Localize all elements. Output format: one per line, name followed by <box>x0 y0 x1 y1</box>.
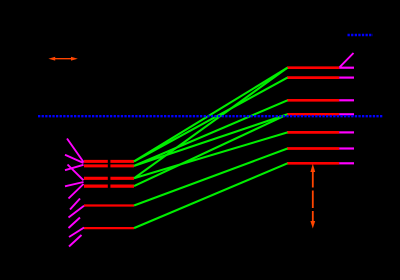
magenta pointer M4 (fan to L2 from above) <box>68 165 84 181</box>
right level R1 (red) <box>287 66 339 69</box>
green connector G2: L1a to R2 <box>134 78 288 162</box>
green connector G4: L1b to R4 <box>134 114 288 166</box>
magenta pointer M3 (fan to L1 from below) <box>65 165 84 170</box>
left level L2b (red dashed pair bottom) <box>84 185 134 188</box>
blue dotted ionization limit line <box>38 115 384 117</box>
right level R5 (red) <box>287 131 339 134</box>
magenta pointer M9 (ladder stroke) <box>69 218 81 229</box>
right level R2 (red) <box>287 76 339 79</box>
magenta extension at R7 <box>339 162 354 164</box>
right level R6 (red) <box>287 147 339 150</box>
left level L1a (red dashed pair top) <box>84 160 134 163</box>
left level L4 (red thin) <box>84 227 134 229</box>
magenta pointer M5 (fan to L2 shallow) <box>65 182 84 186</box>
magenta extension at R5 <box>339 131 354 133</box>
green connector G5: L2a to R1 <box>134 68 288 179</box>
magenta pointer M11 (ladder stroke) <box>69 235 82 247</box>
right level R7 (red) <box>287 162 339 165</box>
orange vertical double arrow (right) <box>310 164 315 229</box>
right level R4 (red, at ionization limit) <box>287 113 339 116</box>
green connector G7: L2b to R4 <box>134 114 288 186</box>
magenta pointer M6 (fan to L2 from below) <box>69 184 84 199</box>
magenta extension at R2 <box>339 76 354 78</box>
magenta pointer M8 (to L3) <box>69 206 85 218</box>
left level L3 (red thin) <box>84 204 134 206</box>
magenta pointer M10 (to L4) <box>69 228 84 237</box>
magenta pointer M2 (fan to L1 shallow) <box>65 155 84 163</box>
magenta pointer M1 (fan to L1 from above) <box>67 139 84 163</box>
magenta extension at R6 <box>339 147 354 149</box>
magenta extension at R1 <box>339 67 354 69</box>
green connector G9: L4 to R7 <box>134 163 288 228</box>
right level R3 (red) <box>287 99 339 102</box>
orange horizontal double arrow (top left) <box>48 57 77 61</box>
magenta diagonal at R1 <box>340 53 354 67</box>
magenta pointer M7 (ladder stroke) <box>70 199 80 210</box>
blue dotted segment top right <box>348 34 374 36</box>
green connector G6: L2a to R5 <box>134 132 288 178</box>
magenta extension at R3 <box>339 99 354 101</box>
magenta extension at R4 <box>339 113 354 115</box>
green connector G8: L3 to R6 <box>134 149 288 206</box>
left level L2a (red dashed pair top) <box>84 177 134 180</box>
green connector G1: L1a to R1 <box>134 68 288 162</box>
left level L1b (red dashed pair bottom) <box>84 164 134 167</box>
green connector G3: L1b to R3 <box>134 100 288 166</box>
